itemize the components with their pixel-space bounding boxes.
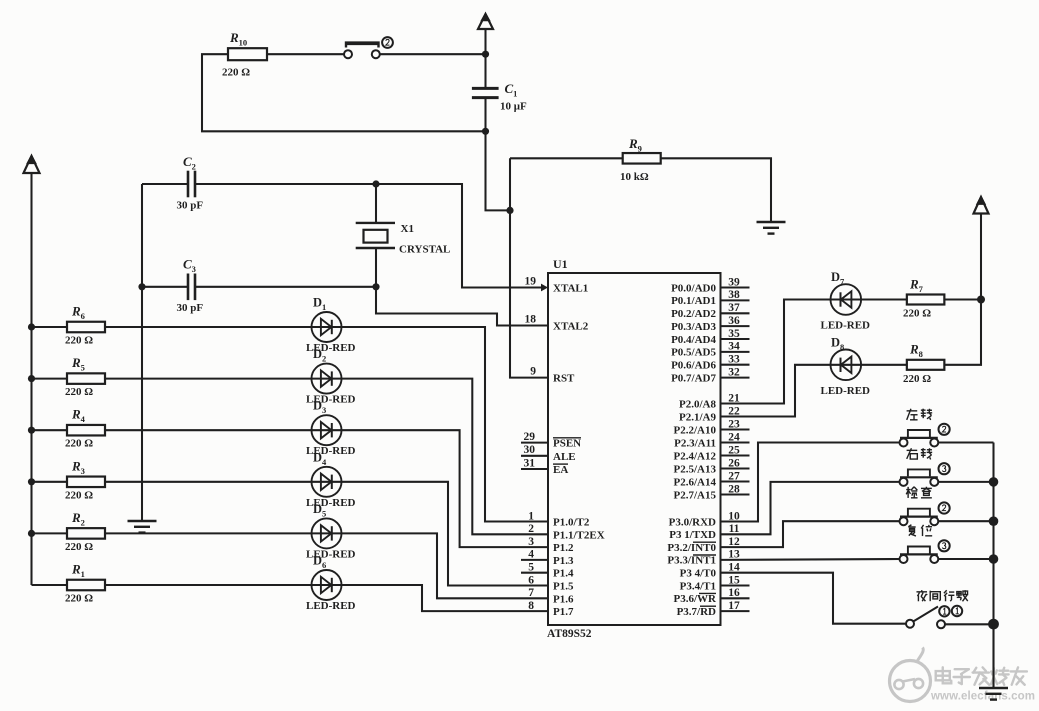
wire R9 left bbox=[510, 157, 623, 159]
U1 pin 3 P1.2 bbox=[528, 536, 574, 554]
wire right rail lower segment bbox=[992, 624, 994, 688]
wire R2 to D5 bbox=[105, 532, 312, 534]
node C1 bottom junction bbox=[482, 128, 489, 135]
LED D2 bbox=[306, 347, 356, 406]
U1 pin 1 P1.0/T2 bbox=[528, 510, 590, 528]
U1 pin 18 XTAL2 bbox=[525, 314, 589, 333]
wire R1 to D6 bbox=[105, 584, 312, 586]
wire D7 to R7 bbox=[861, 298, 907, 300]
U1 pin 35 P0.4/AD4 bbox=[671, 328, 749, 346]
svg-text:9: 9 bbox=[530, 366, 536, 378]
wire R5 to D2 bbox=[105, 378, 312, 380]
wire right rail to ground bbox=[992, 443, 994, 689]
push button reset top bbox=[344, 37, 393, 58]
wire crystal bottom to XTAL2 pin 18 bbox=[376, 287, 548, 326]
svg-text:2: 2 bbox=[528, 523, 534, 535]
LED D6 bbox=[306, 554, 356, 613]
U1 pin 13 P3.3/INT1 bbox=[667, 549, 740, 567]
label yejian xingshi (night driving) bbox=[916, 590, 967, 601]
svg-text:P0.7/AD7: P0.7/AD7 bbox=[671, 372, 716, 384]
svg-text:P3.0/RXD: P3.0/RXD bbox=[669, 516, 716, 528]
U1 pin 29 PSEN bbox=[521, 431, 581, 450]
U1 pin 25 P2.4/A12 bbox=[674, 444, 750, 462]
U1 pin 15 P3.4/T1 bbox=[680, 574, 750, 592]
svg-text:LED-RED: LED-RED bbox=[821, 320, 871, 332]
resistor R2 bbox=[65, 510, 105, 553]
svg-text:P2.4/A12: P2.4/A12 bbox=[674, 450, 717, 462]
resistor R3 bbox=[65, 458, 105, 501]
node left rail junction row 4 bbox=[28, 478, 35, 485]
svg-text:LED-RED: LED-RED bbox=[306, 600, 356, 612]
svg-text:P0.1/AD1: P0.1/AD1 bbox=[671, 295, 716, 307]
node VCC right junction bbox=[977, 296, 985, 304]
svg-text:220 Ω: 220 Ω bbox=[65, 489, 93, 501]
node left rail junction row 3 bbox=[28, 427, 35, 434]
U1 pin 19 XTAL1 bbox=[525, 276, 589, 295]
resistor R4 bbox=[65, 407, 105, 450]
svg-text:P3 4/T0: P3 4/T0 bbox=[680, 568, 717, 580]
svg-text:P0.0/AD0: P0.0/AD0 bbox=[671, 282, 716, 294]
svg-text:P2.3/A11: P2.3/A11 bbox=[674, 437, 716, 449]
svg-text:220 Ω: 220 Ω bbox=[65, 438, 93, 450]
watermark text dianzifashaoyou bbox=[936, 667, 1027, 684]
wire U1 pin 21 to D7 bbox=[721, 300, 832, 404]
svg-text:P3.3/INT1: P3.3/INT1 bbox=[667, 555, 716, 567]
svg-text:P1.3: P1.3 bbox=[553, 555, 574, 567]
svg-text:8: 8 bbox=[528, 600, 534, 612]
svg-text:10 kΩ: 10 kΩ bbox=[620, 171, 649, 183]
wire VCC rail down to R8 bbox=[944, 300, 981, 365]
U1 pin 10 P3.0/RXD bbox=[669, 510, 740, 528]
LED D3 bbox=[306, 399, 356, 458]
svg-text:EA: EA bbox=[553, 464, 568, 476]
wire D2 to U1 pin 2 bbox=[342, 379, 549, 535]
U1 pin 34 P0.5/AD5 bbox=[671, 341, 749, 359]
ground left bbox=[128, 521, 157, 533]
U1 pin 12 P3.2/INT0 bbox=[667, 536, 740, 554]
U1 pin 5 P1.4 bbox=[521, 562, 574, 580]
wire rail to R5 bbox=[32, 378, 68, 380]
crystal X1 bbox=[356, 184, 451, 287]
wire C2 left bbox=[142, 183, 188, 185]
svg-text:P2.0/A8: P2.0/A8 bbox=[679, 398, 716, 410]
svg-text:3: 3 bbox=[528, 536, 534, 548]
wire R6 to D1 bbox=[105, 326, 312, 328]
svg-text:AT89S52: AT89S52 bbox=[547, 628, 592, 640]
svg-text:220 Ω: 220 Ω bbox=[65, 335, 93, 347]
push button switch S4 fu-wei bbox=[900, 540, 950, 563]
U1 pin 28 P2.7/A15 bbox=[674, 483, 750, 501]
wire crystal top node to XTAL1 pin 19 bbox=[376, 184, 542, 288]
wire toggle S5 to right rail bbox=[945, 623, 993, 625]
resistor R7 bbox=[903, 277, 944, 320]
svg-text:PSEN: PSEN bbox=[553, 438, 581, 450]
svg-text:P0.3/AD3: P0.3/AD3 bbox=[671, 321, 716, 333]
U1 pin 31 EA bbox=[521, 457, 568, 476]
node VCC/C1 top junction bbox=[482, 51, 489, 58]
U1 pin 36 P0.3/AD3 bbox=[671, 315, 749, 333]
push button switch S2 you-zhuan bbox=[900, 463, 950, 486]
U1 pin 16 P3.6/WR bbox=[674, 587, 750, 605]
U1 pin 6 P1.5 bbox=[528, 574, 574, 592]
U1 pin 21 P2.0/A8 bbox=[679, 392, 740, 410]
U1 pin 33 P0.6/AD6 bbox=[671, 354, 749, 372]
wire D1 to U1 pin 1 bbox=[342, 327, 549, 522]
wire rail to R3 bbox=[32, 481, 68, 483]
U1 pin 24 P2.3/A11 bbox=[674, 431, 749, 449]
svg-text:P2.5/A13: P2.5/A13 bbox=[674, 463, 717, 475]
svg-text:P1.2: P1.2 bbox=[553, 542, 574, 554]
U1 pin 4 P1.3 bbox=[521, 549, 574, 567]
node crystal top bbox=[372, 180, 379, 187]
wire R10 left leg bbox=[202, 54, 486, 131]
wire U1 pin 11 to switch S2 you-zhuan bbox=[721, 482, 900, 534]
wire switch S1 zuo-zhuan to right rail bbox=[938, 441, 993, 443]
node RST net junction bbox=[506, 207, 513, 214]
capacitor C3 bbox=[177, 257, 204, 315]
wire U1 pin 12 to switch S3 jian-cha bbox=[721, 521, 900, 547]
wire rail to R2 bbox=[32, 532, 68, 534]
wire C2/C3 rail to ground bbox=[141, 184, 143, 521]
svg-text:P2.1/A9: P2.1/A9 bbox=[679, 411, 716, 423]
wire U1 pin 14 to toggle S5 bbox=[721, 573, 907, 624]
U1 pin 39 P0.0/AD0 bbox=[671, 276, 749, 294]
IC U1 AT89S52 body bbox=[547, 257, 721, 640]
svg-text:U1: U1 bbox=[553, 257, 568, 271]
svg-text:30 pF: 30 pF bbox=[177, 302, 204, 314]
wire button to VCC node bbox=[380, 53, 486, 55]
node C3 left rail bbox=[138, 283, 145, 290]
power VCC arrow top bbox=[478, 13, 493, 54]
wire C3 to crystal bottom node bbox=[195, 286, 376, 288]
U1 pin 27 P2.6/A14 bbox=[674, 470, 750, 488]
wire D8 to U1 pin 22 bbox=[721, 365, 832, 417]
svg-text:220 Ω: 220 Ω bbox=[65, 593, 93, 605]
ground R9 bbox=[757, 222, 786, 234]
svg-text:X1: X1 bbox=[401, 223, 414, 235]
U1 pin 2 P1.1/T2EX bbox=[528, 523, 604, 541]
wire C2 to crystal top node bbox=[195, 183, 376, 185]
wire rail to R6 bbox=[32, 326, 68, 328]
LED D8 bbox=[821, 336, 871, 397]
wire U1 pin 10 to switch S1 zuo-zhuan bbox=[721, 443, 900, 522]
wire switch S4 fu-wei to right rail bbox=[938, 558, 993, 560]
U1 pin 30 ALE bbox=[521, 444, 576, 463]
U1 pin 26 P2.5/A13 bbox=[674, 457, 750, 475]
svg-text:P0.5/AD5: P0.5/AD5 bbox=[671, 347, 716, 359]
svg-text:P3.2/INT0: P3.2/INT0 bbox=[667, 542, 716, 554]
watermark url bbox=[930, 691, 1035, 703]
svg-text:P1.0/T2: P1.0/T2 bbox=[553, 517, 590, 529]
wire R8 to D8 bbox=[861, 364, 907, 366]
resistor R1 bbox=[65, 562, 105, 605]
node right rail junction y481 bbox=[989, 477, 999, 487]
wire C3 left bbox=[142, 286, 188, 288]
svg-text:18: 18 bbox=[525, 314, 537, 326]
svg-text:220 Ω: 220 Ω bbox=[903, 308, 931, 320]
U1 pin 37 P0.2/AD2 bbox=[671, 302, 749, 320]
svg-text:220 Ω: 220 Ω bbox=[65, 541, 93, 553]
svg-text:P3.7/RD: P3.7/RD bbox=[677, 606, 716, 618]
wire R4 to D3 bbox=[105, 429, 312, 431]
wire rail to R1 bbox=[32, 584, 68, 586]
wire RST vertical to pin 9 bbox=[510, 158, 548, 377]
label fuwei (reset) bbox=[908, 525, 932, 536]
node left rail junction row 2 bbox=[28, 375, 35, 382]
U1 pin 38 P0.1/AD1 bbox=[671, 289, 749, 307]
svg-text:CRYSTAL: CRYSTAL bbox=[399, 244, 450, 256]
svg-text:RST: RST bbox=[553, 373, 575, 385]
pin arrow XTAL1 bbox=[541, 284, 548, 292]
svg-text:6: 6 bbox=[528, 574, 534, 586]
ground right bottom bbox=[979, 688, 1008, 700]
U1 pin 23 P2.2/A10 bbox=[674, 418, 750, 436]
svg-text:P0.2/AD2: P0.2/AD2 bbox=[671, 308, 716, 320]
svg-text:P3.6/WR: P3.6/WR bbox=[674, 593, 718, 605]
svg-text:220 Ω: 220 Ω bbox=[222, 67, 250, 79]
wire D5 to U1 pin 7 bbox=[342, 533, 549, 598]
wire switch S2 you-zhuan to right rail bbox=[938, 481, 993, 483]
U1 pin 32 P0.7/AD7 bbox=[671, 366, 749, 384]
label youzhuan (right turn) bbox=[907, 448, 933, 459]
label jiancha (check) bbox=[906, 487, 932, 498]
power VCC arrow right bbox=[974, 196, 989, 300]
svg-text:XTAL2: XTAL2 bbox=[553, 321, 589, 333]
wire D3 to U1 pin 3 bbox=[342, 430, 549, 547]
svg-text:29: 29 bbox=[524, 431, 536, 443]
wire R3 to D4 bbox=[105, 481, 312, 483]
wire VCC left rail bbox=[30, 173, 32, 585]
svg-text:P1.7: P1.7 bbox=[553, 606, 574, 618]
resistor R6 bbox=[65, 304, 105, 347]
svg-text:P0.4/AD4: P0.4/AD4 bbox=[671, 334, 716, 346]
U1 pin 8 P1.7 bbox=[528, 600, 574, 618]
svg-text:10 μF: 10 μF bbox=[500, 101, 527, 113]
svg-text:XTAL1: XTAL1 bbox=[553, 283, 588, 295]
node right rail junction y521 bbox=[989, 516, 999, 526]
svg-text:P1.4: P1.4 bbox=[553, 568, 574, 580]
resistor R10 bbox=[222, 30, 267, 79]
wire D4 to U1 pin 6 bbox=[342, 482, 549, 586]
label zuozhuan (left turn) bbox=[907, 409, 933, 420]
capacitor C2 bbox=[177, 154, 204, 212]
wire U1 pin 13 to switch S4 fu-wei bbox=[721, 558, 900, 561]
svg-text:P2.6/A14: P2.6/A14 bbox=[674, 476, 717, 488]
resistor R9 bbox=[620, 136, 661, 183]
LED D1 bbox=[306, 296, 356, 355]
wire R9 to ground bbox=[661, 158, 772, 222]
U1 pin 11 P3 1/TXD bbox=[669, 523, 739, 541]
wire D6 to U1 pin 8 bbox=[342, 585, 549, 611]
svg-text:220 Ω: 220 Ω bbox=[65, 386, 93, 398]
svg-text:P2.2/A10: P2.2/A10 bbox=[674, 424, 717, 436]
LED D4 bbox=[306, 450, 356, 509]
svg-text:P0.6/AD6: P0.6/AD6 bbox=[671, 360, 716, 372]
svg-text:30 pF: 30 pF bbox=[177, 200, 204, 212]
U1 pin 7 P1.6 bbox=[528, 587, 574, 605]
capacitor C1 bbox=[472, 54, 527, 131]
LED D7 bbox=[821, 270, 871, 332]
wire rail to R4 bbox=[32, 429, 68, 431]
node left rail junction row 1 bbox=[28, 323, 35, 330]
toggle switch S5 night-driving bbox=[906, 606, 962, 629]
LED D5 bbox=[306, 502, 356, 561]
svg-text:P1.6: P1.6 bbox=[553, 593, 574, 605]
resistor R5 bbox=[65, 355, 105, 398]
svg-text:P2.7/A15: P2.7/A15 bbox=[674, 489, 717, 501]
svg-text:P1.1/T2EX: P1.1/T2EX bbox=[553, 529, 605, 541]
U1 pin 22 P2.1/A9 bbox=[679, 405, 740, 423]
node right rail junction y559 bbox=[989, 554, 999, 564]
svg-text:19: 19 bbox=[525, 276, 537, 288]
svg-text:P3 1/TXD: P3 1/TXD bbox=[669, 529, 716, 541]
U1 pin 14 P3 4/T0 bbox=[680, 562, 740, 580]
wire R7 to VCC rail bbox=[944, 298, 981, 300]
wire R10 to button bbox=[267, 53, 344, 55]
push button switch S1 zuo-zhuan bbox=[900, 424, 950, 447]
svg-text:7: 7 bbox=[528, 587, 534, 599]
watermark logo circle bbox=[890, 648, 931, 702]
svg-text:220 Ω: 220 Ω bbox=[903, 373, 931, 385]
node crystal bottom / C3 bbox=[372, 283, 379, 290]
svg-text:LED-RED: LED-RED bbox=[821, 385, 871, 397]
wire switch S3 jian-cha to right rail bbox=[938, 520, 993, 522]
wire C1 junction down to RST net bbox=[486, 131, 511, 210]
svg-text:1: 1 bbox=[528, 510, 534, 522]
svg-text:P3.4/T1: P3.4/T1 bbox=[680, 580, 716, 592]
push button switch S3 jian-cha bbox=[900, 502, 950, 525]
svg-text:ALE: ALE bbox=[553, 451, 576, 463]
node left rail junction row 5 bbox=[28, 530, 35, 537]
svg-text:P1.5: P1.5 bbox=[553, 581, 574, 593]
node right rail junction y624 bbox=[988, 619, 999, 630]
U1 pin 9 RST bbox=[530, 366, 575, 385]
U1 pin 17 P3.7/RD bbox=[677, 600, 750, 618]
power VCC arrow left bbox=[24, 155, 40, 173]
svg-text:www.elecfans.com: www.elecfans.com bbox=[930, 691, 1035, 703]
svg-text:31: 31 bbox=[524, 457, 536, 469]
svg-text:30: 30 bbox=[524, 444, 536, 456]
resistor R8 bbox=[903, 342, 944, 385]
